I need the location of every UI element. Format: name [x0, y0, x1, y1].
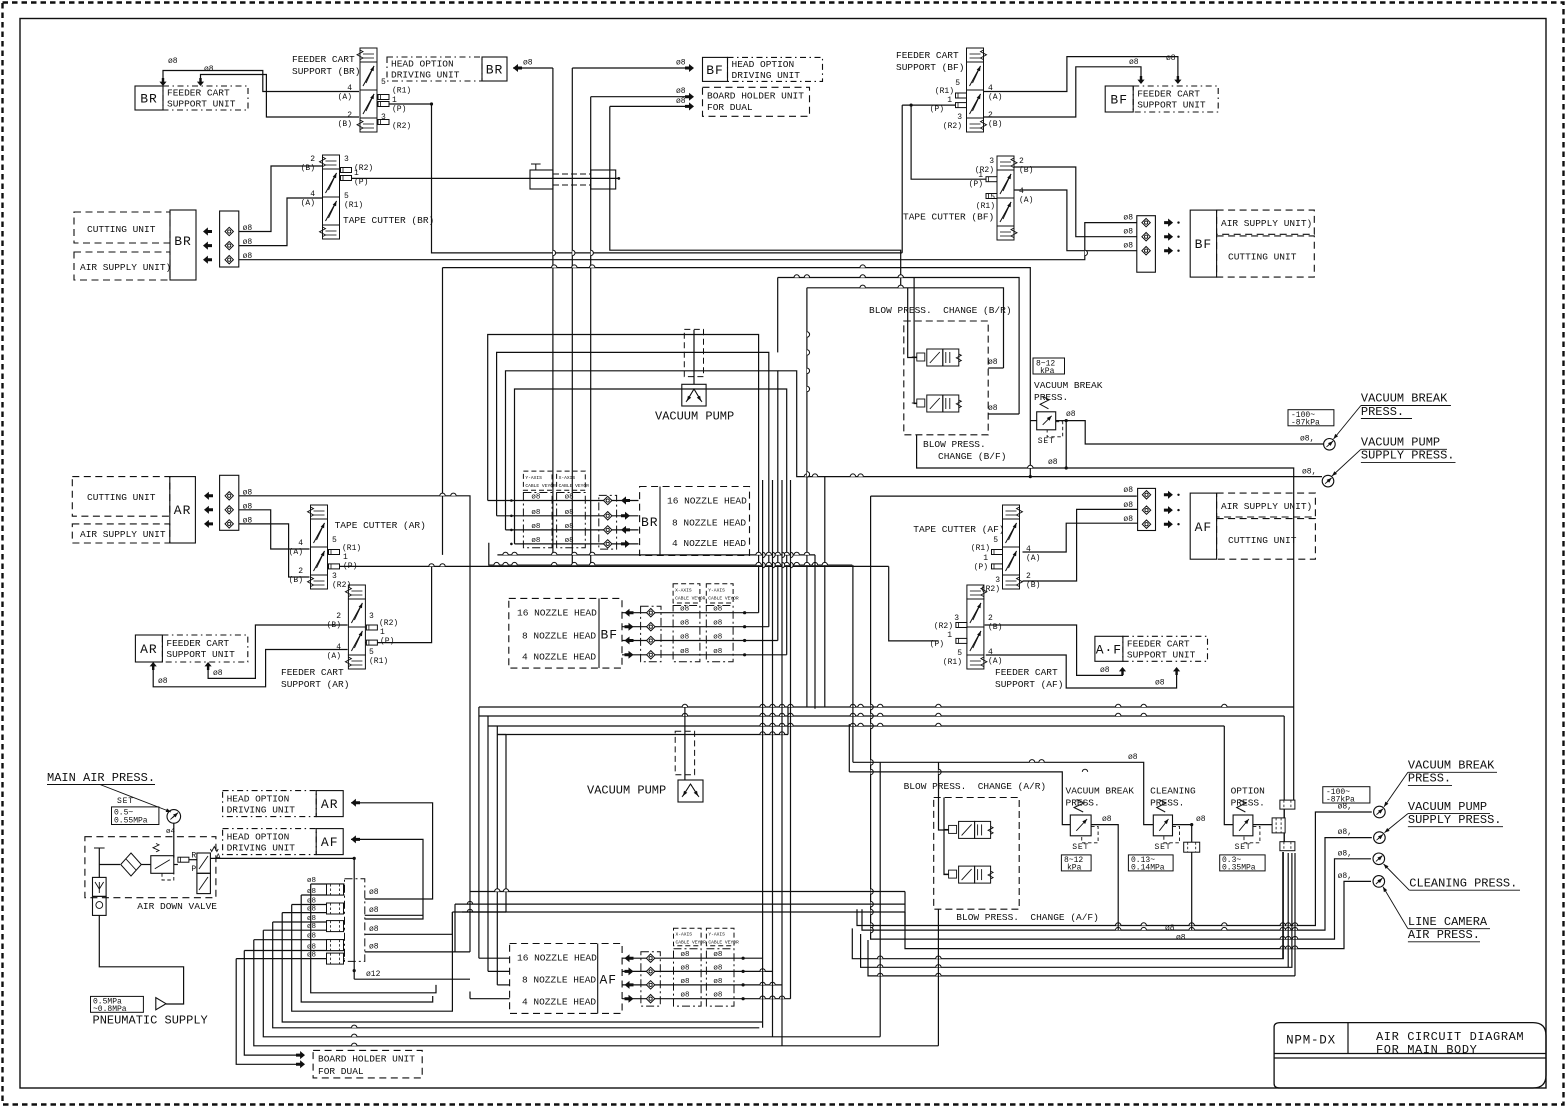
svg-text:ø8: ø8	[1196, 815, 1206, 824]
svg-text:(P): (P)	[974, 563, 988, 572]
svg-text:SET: SET	[1038, 437, 1055, 446]
svg-text:4: 4	[1019, 187, 1024, 196]
svg-text:ø8: ø8	[681, 951, 690, 959]
svg-text:ø8: ø8	[1123, 214, 1133, 223]
svg-text:PRESS.: PRESS.	[1408, 772, 1451, 786]
svg-text:2: 2	[988, 111, 993, 120]
svg-text:HEAD OPTION: HEAD OPTION	[732, 59, 795, 70]
svg-text:MAIN AIR PRESS.: MAIN AIR PRESS.	[47, 771, 155, 785]
svg-text:ø8,: ø8,	[1302, 467, 1316, 476]
svg-text:BR: BR	[140, 92, 158, 107]
svg-text:ø8: ø8	[1123, 501, 1133, 510]
svg-text:1: 1	[392, 96, 397, 105]
svg-text:ø8: ø8	[307, 944, 316, 952]
svg-text:(R1): (R1)	[976, 202, 995, 211]
svg-text:ø8: ø8	[680, 648, 689, 656]
svg-text:ø8: ø8	[1048, 458, 1058, 467]
svg-text:ø8: ø8	[681, 964, 690, 972]
svg-text:ø8: ø8	[243, 488, 253, 497]
svg-text:ø8: ø8	[676, 87, 686, 96]
svg-text:AIR SUPPLY UNIT): AIR SUPPLY UNIT)	[80, 262, 171, 273]
svg-text:SUPPORT (AF): SUPPORT (AF)	[995, 679, 1063, 690]
svg-text:4 NOZZLE HEAD: 4 NOZZLE HEAD	[522, 652, 596, 663]
svg-text:CUTTING UNIT: CUTTING UNIT	[1228, 535, 1297, 546]
svg-text:ø8: ø8	[565, 509, 574, 517]
svg-text:VACUUM PUMP: VACUUM PUMP	[655, 410, 734, 424]
svg-text:ø8: ø8	[1066, 410, 1076, 419]
svg-text:(R1): (R1)	[342, 544, 361, 553]
svg-text:ø8: ø8	[531, 537, 540, 545]
svg-text:ø8: ø8	[988, 404, 998, 413]
svg-text:4: 4	[988, 84, 993, 93]
svg-text:BF: BF	[601, 628, 619, 643]
svg-text:ø8,: ø8,	[1338, 872, 1352, 881]
svg-text:CLEANING PRESS.: CLEANING PRESS.	[1409, 876, 1517, 890]
svg-text:P: P	[191, 865, 196, 874]
svg-text:A: A	[216, 853, 221, 862]
svg-text:ø8: ø8	[713, 620, 722, 628]
svg-text:BF: BF	[1195, 237, 1213, 252]
svg-text:CUTTING UNIT: CUTTING UNIT	[87, 492, 156, 503]
svg-text:BF: BF	[1110, 93, 1128, 108]
svg-text:16 NOZZLE HEAD: 16 NOZZLE HEAD	[517, 607, 597, 618]
svg-text:SUPPORT UNIT: SUPPORT UNIT	[167, 99, 236, 110]
svg-text:(B): (B)	[988, 623, 1002, 632]
svg-text:FOR MAIN BODY: FOR MAIN BODY	[1376, 1043, 1477, 1057]
svg-text:1: 1	[354, 169, 359, 178]
svg-text:(A): (A)	[1019, 196, 1033, 205]
svg-text:(B): (B)	[1026, 581, 1040, 590]
svg-text:SUPPORT (AR): SUPPORT (AR)	[281, 679, 349, 690]
svg-text:PNEUMATIC SUPPLY: PNEUMATIC SUPPLY	[93, 1014, 208, 1028]
svg-text:4: 4	[336, 643, 341, 652]
svg-text:TAPE CUTTER (AR): TAPE CUTTER (AR)	[335, 520, 426, 531]
svg-text:ø8: ø8	[168, 57, 178, 66]
svg-text:ø8: ø8	[1123, 228, 1133, 237]
svg-text:A·F: A·F	[1096, 642, 1122, 657]
svg-text:DRIVING UNIT: DRIVING UNIT	[227, 842, 296, 853]
svg-text:OPTION: OPTION	[1231, 786, 1265, 797]
svg-text:2: 2	[310, 155, 315, 164]
svg-text:4: 4	[1026, 545, 1031, 554]
svg-text:(B): (B)	[289, 576, 303, 585]
svg-text:ø8: ø8	[307, 906, 316, 914]
svg-text:ø8: ø8	[1166, 54, 1176, 63]
svg-text:ø8: ø8	[1123, 515, 1133, 524]
svg-text:1: 1	[978, 171, 983, 180]
svg-text:(A): (A)	[327, 652, 341, 661]
svg-text:NPM-DX: NPM-DX	[1286, 1034, 1336, 1048]
svg-text:FEEDER CART: FEEDER CART	[995, 667, 1058, 678]
svg-text:1: 1	[947, 631, 952, 640]
svg-text:1: 1	[343, 553, 348, 562]
svg-text:ø8: ø8	[369, 906, 379, 915]
svg-text:VACUUM BREAK: VACUUM BREAK	[1034, 380, 1103, 391]
svg-text:5: 5	[990, 193, 995, 202]
svg-text:DRIVING UNIT: DRIVING UNIT	[391, 70, 460, 81]
svg-text:ø8,: ø8,	[1338, 828, 1352, 837]
svg-text:2: 2	[298, 567, 303, 576]
svg-text:X-AXIS: X-AXIS	[559, 475, 576, 481]
svg-text:HEAD OPTION: HEAD OPTION	[391, 59, 454, 70]
svg-text:5: 5	[332, 536, 337, 545]
svg-text:Y-AXIS: Y-AXIS	[708, 932, 725, 938]
svg-text:ø8: ø8	[531, 509, 540, 517]
svg-text:ø8: ø8	[1176, 934, 1186, 943]
svg-text:(A): (A)	[338, 93, 352, 102]
svg-text:VACUUM BREAK: VACUUM BREAK	[1361, 392, 1448, 406]
svg-text:(A): (A)	[1026, 554, 1040, 563]
svg-text:(B): (B)	[1019, 166, 1033, 175]
svg-text:CUTTING UNIT: CUTTING UNIT	[1228, 252, 1297, 263]
svg-text:(R2): (R2)	[379, 619, 398, 628]
svg-text:VACUUM BREAK: VACUUM BREAK	[1408, 759, 1495, 773]
svg-text:1: 1	[983, 554, 988, 563]
svg-text:ø8: ø8	[243, 502, 253, 511]
svg-text:PRESS.: PRESS.	[1066, 798, 1100, 809]
svg-text:HEAD OPTION: HEAD OPTION	[227, 831, 290, 842]
svg-text:SET: SET	[1235, 843, 1252, 852]
svg-text:8 NOZZLE HEAD: 8 NOZZLE HEAD	[522, 975, 596, 986]
svg-text:ø8: ø8	[213, 669, 223, 678]
svg-text:16 NOZZLE HEAD: 16 NOZZLE HEAD	[667, 496, 747, 507]
svg-text:2: 2	[988, 614, 993, 623]
svg-text:DRIVING UNIT: DRIVING UNIT	[227, 804, 296, 815]
svg-text:FEEDER CART: FEEDER CART	[167, 88, 230, 99]
svg-text:kPa: kPa	[1040, 367, 1055, 376]
svg-text:SUPPORT UNIT: SUPPORT UNIT	[1127, 650, 1196, 661]
svg-text:(P): (P)	[930, 105, 944, 114]
svg-text:1: 1	[947, 96, 952, 105]
svg-text:ø8: ø8	[307, 933, 316, 941]
svg-text:(R1): (R1)	[935, 87, 954, 96]
svg-text:SUPPLY PRESS.: SUPPLY PRESS.	[1408, 813, 1502, 827]
svg-text:ø8: ø8	[307, 952, 316, 960]
svg-text:BLOW PRESS.: BLOW PRESS.	[923, 439, 986, 450]
svg-text:ø8: ø8	[1102, 815, 1112, 824]
svg-text:ø8: ø8	[369, 925, 379, 934]
svg-text:ø8: ø8	[204, 65, 214, 74]
svg-text:ø8: ø8	[713, 951, 722, 959]
svg-text:ø8: ø8	[307, 888, 316, 896]
svg-text:AR: AR	[321, 797, 339, 812]
svg-text:5: 5	[344, 192, 349, 201]
svg-text:ø8: ø8	[369, 888, 379, 897]
svg-text:FEEDER CART: FEEDER CART	[281, 667, 344, 678]
svg-text:ø8: ø8	[243, 516, 253, 525]
svg-text:ø8: ø8	[307, 877, 316, 885]
svg-text:TAPE CUTTER (AF): TAPE CUTTER (AF)	[913, 524, 1004, 535]
svg-text:ø8: ø8	[523, 59, 533, 68]
svg-text:-87kPa: -87kPa	[1326, 796, 1355, 805]
svg-text:3: 3	[957, 113, 962, 122]
svg-text:PRESS.: PRESS.	[1150, 798, 1184, 809]
svg-text:ø8: ø8	[307, 915, 316, 923]
svg-text:CABLE VEYOR: CABLE VEYOR	[675, 596, 706, 602]
svg-text:ø8: ø8	[1123, 486, 1133, 495]
svg-text:BOARD HOLDER UNIT: BOARD HOLDER UNIT	[707, 91, 804, 102]
svg-text:(R1): (R1)	[392, 87, 411, 96]
svg-text:ø8: ø8	[676, 59, 686, 68]
svg-text:2: 2	[336, 612, 341, 621]
svg-text:SET: SET	[1154, 843, 1171, 852]
svg-text:(P): (P)	[969, 180, 983, 189]
svg-text:AIR SUPPLY UNIT: AIR SUPPLY UNIT	[80, 529, 166, 540]
svg-text:ø8: ø8	[713, 992, 722, 1000]
svg-text:3: 3	[995, 576, 1000, 585]
svg-text:4 NOZZLE HEAD: 4 NOZZLE HEAD	[672, 538, 746, 549]
svg-text:ø8,: ø8,	[1338, 850, 1352, 859]
svg-text:4: 4	[988, 648, 993, 657]
svg-text:(R1): (R1)	[369, 657, 388, 666]
svg-text:PRESS.: PRESS.	[1361, 405, 1404, 419]
svg-text:4 NOZZLE HEAD: 4 NOZZLE HEAD	[522, 997, 596, 1008]
svg-text:VACUUM PUMP: VACUUM PUMP	[1361, 436, 1440, 450]
svg-text:ø8,: ø8,	[1300, 435, 1314, 444]
svg-text:ø8: ø8	[1129, 58, 1139, 67]
svg-text:2: 2	[1026, 572, 1031, 581]
svg-text:BLOW PRESS. CHANGE (A/F): BLOW PRESS. CHANGE (A/F)	[956, 912, 1099, 923]
svg-text:LINE CAMERA: LINE CAMERA	[1408, 915, 1488, 929]
svg-text:(R1): (R1)	[943, 658, 962, 667]
svg-text:ø8: ø8	[243, 252, 253, 261]
svg-text:(A): (A)	[988, 657, 1002, 666]
svg-text:AR: AR	[174, 503, 192, 518]
svg-text:3: 3	[989, 157, 994, 166]
svg-text:8 NOZZLE HEAD: 8 NOZZLE HEAD	[522, 631, 596, 642]
svg-text:ø8: ø8	[1165, 924, 1175, 933]
svg-text:ø12: ø12	[366, 970, 381, 979]
svg-text:ø8: ø8	[307, 923, 316, 931]
svg-text:SUPPLY PRESS.: SUPPLY PRESS.	[1361, 449, 1455, 463]
svg-text:3: 3	[381, 113, 386, 122]
svg-text:ø8: ø8	[713, 606, 722, 614]
svg-text:3: 3	[332, 572, 337, 581]
svg-text:CLEANING: CLEANING	[1150, 786, 1196, 797]
svg-text:ø8: ø8	[681, 978, 690, 986]
svg-text:TAPE CUTTER (BR): TAPE CUTTER (BR)	[343, 215, 434, 226]
svg-text:ø8: ø8	[565, 537, 574, 545]
svg-text:CABLE VEYOR: CABLE VEYOR	[525, 483, 556, 489]
svg-text:(R2): (R2)	[934, 622, 953, 631]
svg-text:SUPPORT (BF): SUPPORT (BF)	[896, 62, 964, 73]
svg-text:3: 3	[369, 612, 374, 621]
svg-text:FEEDER CART: FEEDER CART	[166, 638, 229, 649]
svg-text:ø8: ø8	[1128, 753, 1138, 762]
svg-text:(B): (B)	[327, 621, 341, 630]
svg-text:ø8: ø8	[243, 238, 253, 247]
svg-text:2: 2	[347, 111, 352, 120]
svg-text:4: 4	[298, 539, 303, 548]
svg-text:AIR SUPPLY UNIT): AIR SUPPLY UNIT)	[1221, 218, 1312, 229]
svg-text:4: 4	[347, 84, 352, 93]
svg-text:BOARD HOLDER UNIT: BOARD HOLDER UNIT	[318, 1054, 415, 1065]
svg-text:ø8: ø8	[243, 224, 253, 233]
svg-text:2: 2	[1019, 157, 1024, 166]
svg-text:ø8: ø8	[307, 898, 316, 906]
svg-text:(P): (P)	[354, 178, 368, 187]
svg-text:CABLE VEYOR: CABLE VEYOR	[676, 940, 707, 946]
svg-text:(A): (A)	[289, 548, 303, 557]
svg-text:BR: BR	[486, 63, 504, 78]
svg-text:ø8: ø8	[1100, 666, 1110, 675]
svg-text:CABLE VEYOR: CABLE VEYOR	[708, 940, 739, 946]
svg-text:ø8: ø8	[713, 978, 722, 986]
svg-text:ø8: ø8	[680, 620, 689, 628]
svg-text:AF: AF	[1195, 520, 1213, 535]
svg-text:ø8: ø8	[1155, 679, 1165, 688]
svg-text:ø4: ø4	[166, 828, 176, 836]
svg-text:AIR PRESS.: AIR PRESS.	[1408, 928, 1480, 942]
svg-text:CABLE VEYOR: CABLE VEYOR	[559, 483, 590, 489]
svg-text:3: 3	[344, 155, 349, 164]
svg-text:SUPPORT UNIT: SUPPORT UNIT	[166, 649, 235, 660]
svg-text:(R1): (R1)	[971, 544, 990, 553]
svg-text:ø8: ø8	[1123, 242, 1133, 251]
svg-text:AIR DOWN VALVE: AIR DOWN VALVE	[137, 901, 217, 912]
svg-text:SUPPORT UNIT: SUPPORT UNIT	[1137, 100, 1206, 111]
svg-text:SET: SET	[1072, 843, 1089, 852]
svg-text:SET: SET	[117, 797, 134, 806]
svg-text:AIR CIRCUIT DIAGRAM: AIR CIRCUIT DIAGRAM	[1376, 1030, 1524, 1044]
svg-text:(P): (P)	[930, 640, 944, 649]
svg-text:ø8: ø8	[713, 634, 722, 642]
svg-text:5: 5	[993, 536, 998, 545]
svg-text:ø8: ø8	[369, 943, 379, 952]
svg-text:PRESS.: PRESS.	[1231, 798, 1265, 809]
svg-text:8 NOZZLE HEAD: 8 NOZZLE HEAD	[672, 518, 746, 529]
svg-text:1: 1	[380, 628, 385, 637]
svg-text:BLOW PRESS. CHANGE (B/R): BLOW PRESS. CHANGE (B/R)	[869, 305, 1012, 316]
svg-text:4: 4	[310, 190, 315, 199]
svg-text:(B): (B)	[301, 164, 315, 173]
svg-text:FEEDER CART: FEEDER CART	[896, 50, 959, 61]
svg-text:AIR SUPPLY UNIT): AIR SUPPLY UNIT)	[1221, 501, 1312, 512]
svg-text:0.55MPa: 0.55MPa	[114, 817, 148, 826]
svg-text:5: 5	[369, 648, 374, 657]
svg-text:(R1): (R1)	[344, 201, 363, 210]
svg-text:3: 3	[954, 614, 959, 623]
svg-text:HEAD OPTION: HEAD OPTION	[227, 793, 290, 804]
svg-text:R: R	[191, 852, 196, 861]
svg-text:ø8: ø8	[680, 606, 689, 614]
svg-text:DRIVING UNIT: DRIVING UNIT	[732, 70, 801, 81]
svg-text:kPa: kPa	[1067, 864, 1082, 873]
svg-text:(P): (P)	[380, 637, 394, 646]
svg-text:ø8: ø8	[713, 648, 722, 656]
svg-text:ø8: ø8	[531, 523, 540, 531]
svg-text:CHANGE (B/F): CHANGE (B/F)	[938, 451, 1006, 462]
svg-text:(B): (B)	[338, 120, 352, 129]
svg-text:ø8: ø8	[713, 964, 722, 972]
svg-text:AF: AF	[600, 972, 618, 987]
svg-text:ø8: ø8	[565, 523, 574, 531]
svg-text:FEEDER CART: FEEDER CART	[292, 54, 355, 65]
svg-text:VACUUM PUMP: VACUUM PUMP	[1408, 800, 1487, 814]
svg-text:CABLE VEYOR: CABLE VEYOR	[708, 596, 739, 602]
svg-text:5: 5	[955, 79, 960, 88]
svg-text:(R2): (R2)	[392, 122, 411, 131]
svg-text:ø8: ø8	[531, 494, 540, 502]
svg-text:BF: BF	[706, 63, 724, 78]
svg-text:TAPE CUTTER (BF): TAPE CUTTER (BF)	[903, 212, 994, 223]
svg-text:AF: AF	[321, 835, 339, 850]
svg-text:BR: BR	[641, 515, 659, 530]
svg-text:SUPPORT (BR): SUPPORT (BR)	[292, 66, 360, 77]
svg-text:(P): (P)	[392, 105, 406, 114]
svg-text:5: 5	[957, 649, 962, 658]
svg-text:ø8: ø8	[681, 992, 690, 1000]
svg-text:FEEDER CART: FEEDER CART	[1127, 639, 1190, 650]
svg-text:AR: AR	[140, 642, 158, 657]
svg-text:X-AXIS: X-AXIS	[676, 932, 693, 938]
svg-text:Y-AXIS: Y-AXIS	[525, 475, 542, 481]
svg-text:Y-AXIS: Y-AXIS	[708, 588, 725, 594]
svg-text:BLOW PRESS. CHANGE (A/R): BLOW PRESS. CHANGE (A/R)	[904, 781, 1047, 792]
svg-text:5: 5	[381, 78, 386, 87]
svg-text:PRESS.: PRESS.	[1034, 392, 1068, 403]
svg-text:FOR DUAL: FOR DUAL	[707, 102, 753, 113]
svg-text:VACUUM BREAK: VACUUM BREAK	[1066, 786, 1135, 797]
svg-text:(R2): (R2)	[943, 122, 962, 131]
svg-text:VACUUM PUMP: VACUUM PUMP	[587, 784, 666, 798]
svg-text:ø8: ø8	[680, 634, 689, 642]
svg-text:ø8: ø8	[565, 494, 574, 502]
svg-text:(A): (A)	[988, 93, 1002, 102]
svg-text:ø8: ø8	[988, 358, 998, 367]
svg-text:16 NOZZLE HEAD: 16 NOZZLE HEAD	[517, 953, 597, 964]
svg-text:0.35MPa: 0.35MPa	[1222, 864, 1256, 873]
svg-text:-87kPa: -87kPa	[1291, 419, 1320, 428]
svg-text:ø8: ø8	[158, 677, 168, 686]
svg-text:CUTTING UNIT: CUTTING UNIT	[87, 224, 156, 235]
svg-text:ø8: ø8	[676, 97, 686, 106]
svg-text:(B): (B)	[988, 120, 1002, 129]
svg-text:FEEDER CART: FEEDER CART	[1137, 89, 1200, 100]
svg-text:(P): (P)	[343, 562, 357, 571]
svg-text:0.14MPa: 0.14MPa	[1131, 864, 1165, 873]
svg-text:X-AXIS: X-AXIS	[675, 588, 692, 594]
svg-text:BR: BR	[174, 234, 192, 249]
svg-text:(A): (A)	[301, 199, 315, 208]
svg-text:FOR DUAL: FOR DUAL	[318, 1066, 364, 1077]
